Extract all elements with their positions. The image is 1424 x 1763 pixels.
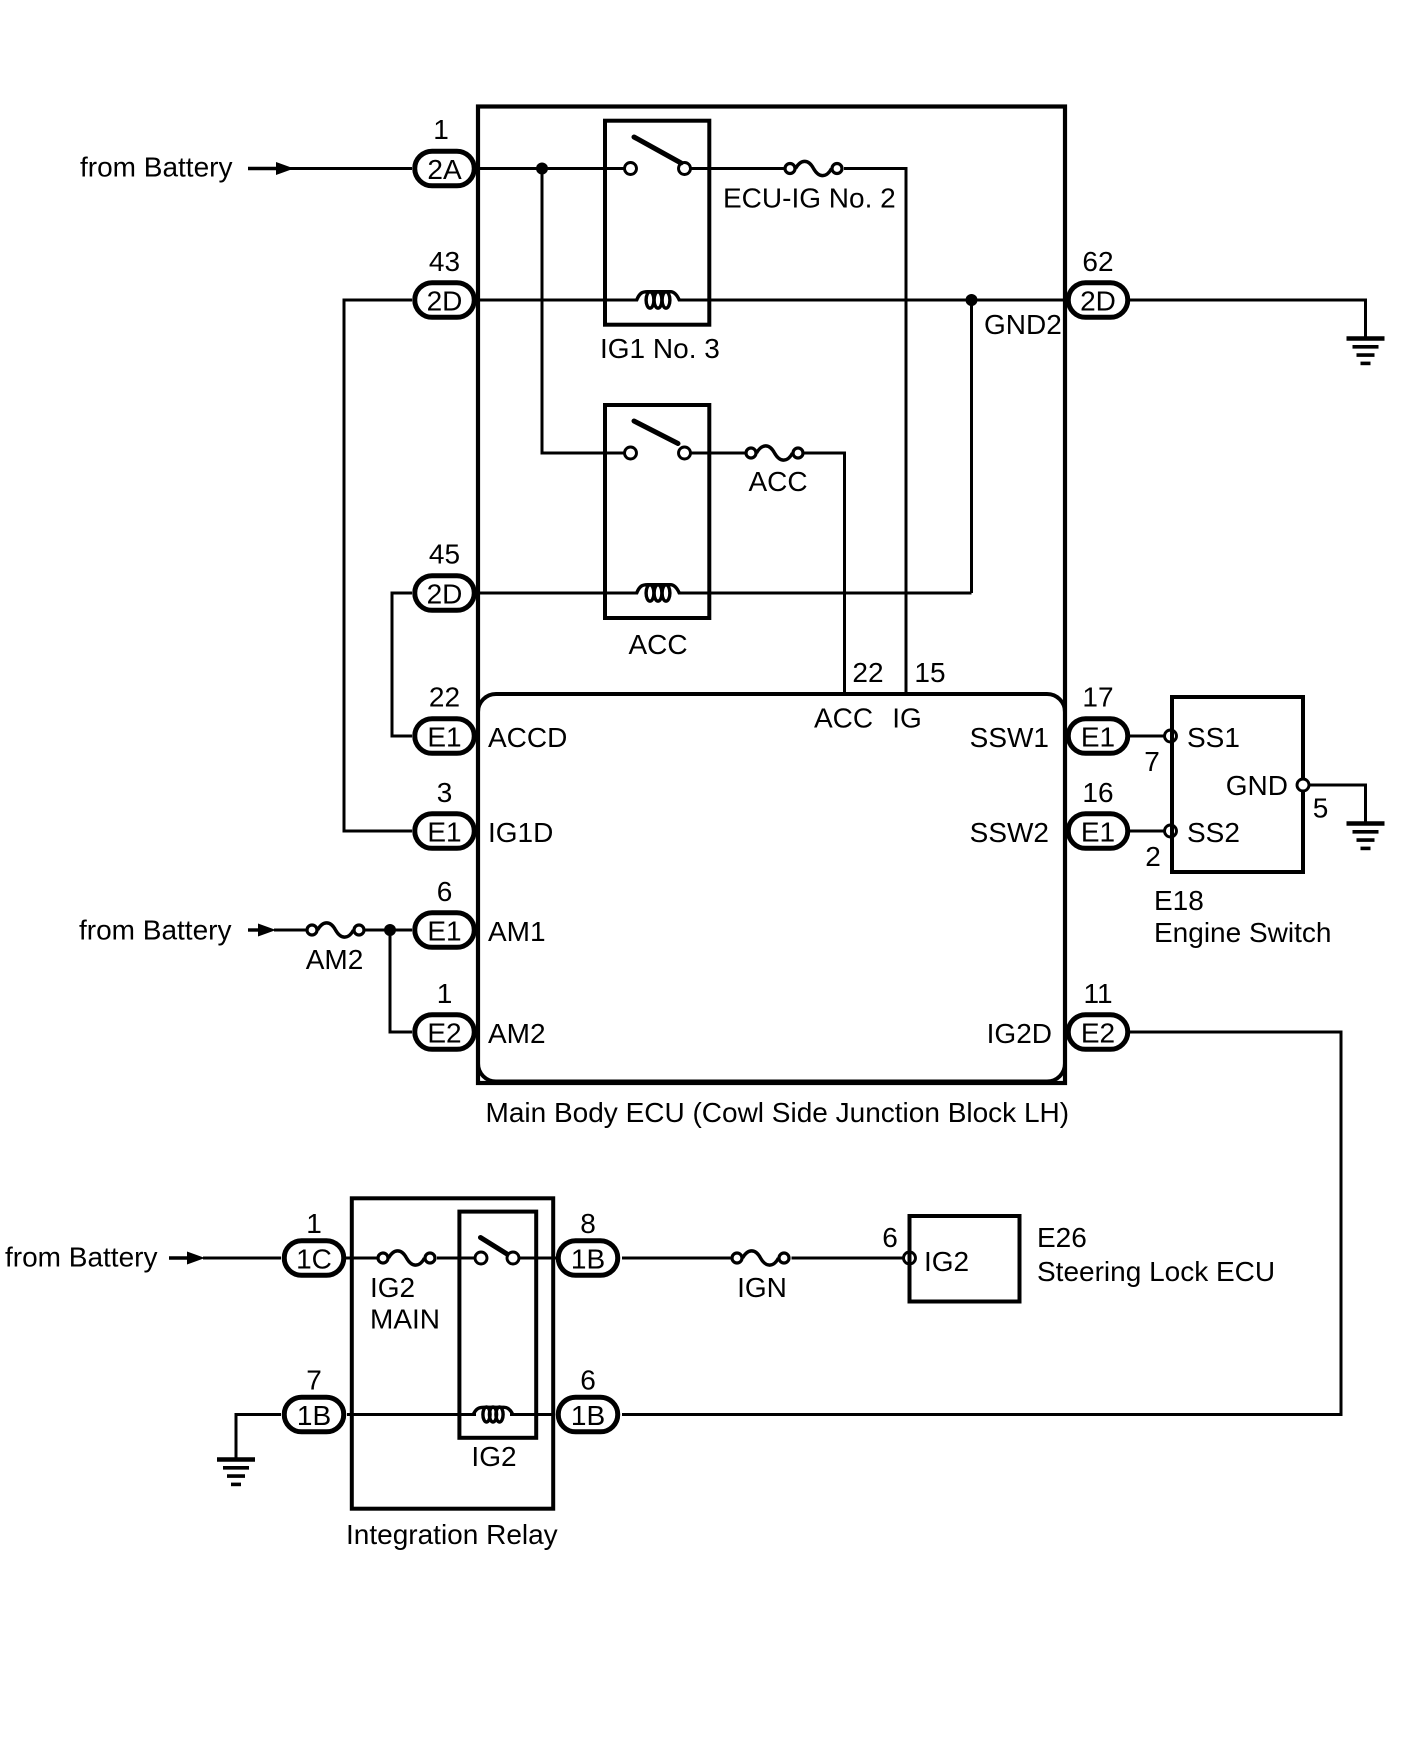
svg-text:1B: 1B	[297, 1400, 331, 1431]
relay IG1 No.3 switch contact left	[625, 163, 637, 175]
svg-text:Engine Switch: Engine Switch	[1154, 917, 1331, 948]
label ACCD	[488, 722, 567, 753]
svg-text:1C: 1C	[296, 1244, 332, 1275]
label IG2D	[987, 1018, 1052, 1049]
label ACC (ECU internal net)	[814, 703, 873, 734]
connector pin 2A	[415, 151, 475, 186]
wire fuse ECU-IG No.2 to pin 15 IG	[844, 169, 906, 697]
svg-text:E1: E1	[1081, 817, 1115, 848]
engine switch terminal SS2	[1165, 825, 1177, 837]
pin number 62 of connector 2D	[1082, 246, 1113, 277]
fuse IG2 MAIN	[378, 1251, 435, 1265]
svg-text:AM1: AM1	[488, 916, 546, 947]
label from Battery (integration relay feed)	[5, 1242, 157, 1273]
relay IG2 switch contact left	[475, 1252, 487, 1264]
svg-text:E1: E1	[427, 722, 461, 753]
wire relay IG2 coil to connector 1B-6	[510, 1413, 554, 1416]
wire fuse IGN to steering lock ECU IG2	[792, 1257, 904, 1260]
svg-text:1: 1	[433, 114, 449, 145]
wire engine switch GND to ground	[1310, 785, 1366, 824]
svg-text:11: 11	[1083, 978, 1112, 1009]
pin number 22 of connector E1	[429, 682, 460, 713]
pin number 22 (ECU top)	[852, 657, 883, 688]
connector pin 1B (8)	[558, 1241, 618, 1276]
wire relay ACC switch to fuse ACC	[691, 452, 745, 455]
junction node on 2A feed	[536, 163, 548, 175]
svg-text:16: 16	[1082, 777, 1113, 808]
label IG2 (relay)	[471, 1441, 516, 1472]
pin number 3 of connector E1	[437, 777, 453, 808]
pin number 8 of connector 1B	[580, 1208, 596, 1239]
svg-text:Integration Relay: Integration Relay	[346, 1519, 558, 1550]
wire relay IG1 No.3 coil to connector 2D-62	[678, 299, 1065, 302]
wire IG2D to integration relay 1B-6	[622, 1032, 1341, 1415]
connector pin 1C (1)	[284, 1241, 344, 1276]
wire junction to pin AM2	[390, 930, 412, 1032]
relay ACC box	[605, 405, 709, 618]
svg-text:ACCD: ACCD	[488, 722, 567, 753]
relay IG1 No.3 box	[605, 121, 709, 325]
junction node AM2 feed	[384, 924, 396, 936]
wire fuse IG2 MAIN to relay IG2 switch	[437, 1257, 474, 1260]
pin number 43 of connector 2D	[429, 246, 460, 277]
label IG1 No. 3	[600, 333, 720, 364]
label MAIN (fuse)	[370, 1304, 440, 1335]
pin number 1 of connector E2	[437, 978, 453, 1009]
svg-text:E26: E26	[1037, 1222, 1087, 1253]
svg-text:SSW1: SSW1	[970, 722, 1049, 753]
ground symbol integration relay	[217, 1460, 255, 1485]
svg-text:17: 17	[1082, 682, 1113, 713]
svg-text:E1: E1	[427, 817, 461, 848]
svg-text:22: 22	[429, 682, 460, 713]
relay IG1 No.3 switch contact right	[679, 163, 691, 175]
svg-text:2D: 2D	[427, 286, 463, 317]
svg-text:3: 3	[437, 777, 453, 808]
pin number 15 (ECU top)	[914, 657, 945, 688]
relay IG2 coil	[473, 1407, 513, 1422]
svg-text:from Battery: from Battery	[80, 152, 232, 183]
svg-text:2D: 2D	[427, 579, 463, 610]
relay ACC coil	[637, 585, 680, 602]
label SSW2	[970, 817, 1049, 848]
junction node GND2	[966, 294, 978, 306]
fuse ECU-IG No. 2	[785, 161, 842, 175]
wire 1B-8 to fuse IGN	[622, 1257, 731, 1260]
wire GND2 junction down to ACC coil net	[970, 300, 973, 593]
connector pin E1 (16) SSW2	[1068, 814, 1128, 849]
wire 1C to fuse IG2 MAIN	[346, 1257, 377, 1260]
wire relay IG1 No.3 switch to fuse ECU-IG No.2	[692, 167, 784, 170]
integration relay box	[352, 1198, 553, 1508]
pin number 2 (engine switch)	[1145, 841, 1161, 872]
label SS1	[1187, 722, 1240, 753]
wire fuse ACC to pin 22 ACC	[805, 453, 845, 696]
engine switch terminal GND	[1297, 779, 1309, 791]
label AM2 (pin)	[488, 1018, 546, 1049]
pin number 17 of connector E1	[1082, 682, 1113, 713]
label IG2 (steering lock ECU pin)	[924, 1246, 969, 1277]
svg-text:from Battery: from Battery	[5, 1242, 157, 1273]
svg-text:15: 15	[914, 657, 945, 688]
svg-text:from Battery: from Battery	[79, 915, 231, 946]
pin number 16 of connector E1	[1082, 777, 1113, 808]
arrowhead from Battery (AM2 feed)	[248, 924, 276, 937]
pin number 11 of connector E2	[1083, 978, 1112, 1009]
svg-text:6: 6	[882, 1222, 898, 1253]
wire arrow to connector 1C	[203, 1257, 281, 1260]
svg-text:IGN: IGN	[737, 1272, 787, 1303]
wire relay IG2 switch to connector 1B-8	[520, 1257, 556, 1260]
fuse AM2	[307, 923, 364, 937]
pin number 7 (engine switch)	[1144, 746, 1160, 777]
svg-text:Main Body ECU (Cowl Side Junct: Main Body ECU (Cowl Side Junction Block …	[486, 1097, 1070, 1128]
label AM2 (fuse)	[306, 944, 364, 975]
svg-text:E2: E2	[1081, 1018, 1115, 1049]
svg-text:IG2: IG2	[370, 1272, 415, 1303]
engine switch E18 box	[1172, 697, 1303, 872]
wire SSW1 to engine switch SS1	[1130, 735, 1166, 738]
wire relay ACC coil to GND2 junction	[678, 592, 972, 595]
svg-text:ACC: ACC	[628, 629, 687, 660]
arrowhead from Battery (integration relay feed)	[169, 1252, 205, 1265]
relay IG1 No.3 coil	[637, 292, 680, 308]
connector pin E1 (17) SSW1	[1068, 719, 1128, 754]
svg-text:22: 22	[852, 657, 883, 688]
wire 2D-45 to relay ACC coil	[477, 592, 638, 595]
svg-text:IG2: IG2	[471, 1441, 516, 1472]
svg-text:SSW2: SSW2	[970, 817, 1049, 848]
svg-text:6: 6	[437, 876, 453, 907]
svg-text:ACC: ACC	[748, 466, 807, 497]
label GND (engine switch)	[1226, 770, 1288, 801]
connector pin E1 (3) IG1D	[415, 814, 475, 849]
connector pin 1B (7)	[284, 1397, 344, 1432]
connector pin 2D (62)	[1068, 283, 1128, 318]
pin number 1 of connector 1C	[306, 1208, 322, 1239]
fuse IGN	[732, 1251, 789, 1265]
svg-text:E2: E2	[427, 1018, 461, 1049]
relay IG2 switch contact right	[507, 1252, 519, 1264]
label ACC (relay)	[628, 629, 687, 660]
connector pin E2 (11) IG2D	[1068, 1015, 1128, 1050]
label Engine Switch	[1154, 917, 1331, 948]
steering lock ECU terminal IG2	[904, 1252, 916, 1264]
svg-text:MAIN: MAIN	[370, 1304, 440, 1335]
svg-text:GND: GND	[1226, 770, 1288, 801]
label IG1D	[488, 817, 553, 848]
svg-text:8: 8	[580, 1208, 596, 1239]
relay IG1 No.3 switch blade	[634, 137, 681, 163]
wire junction to relay ACC switch	[542, 169, 624, 454]
svg-text:1B: 1B	[571, 1400, 605, 1431]
svg-text:IG2D: IG2D	[987, 1018, 1052, 1049]
wire arrow to fuse AM2	[274, 929, 306, 932]
svg-text:SS1: SS1	[1187, 722, 1240, 753]
svg-text:IG: IG	[892, 703, 922, 734]
connector pin E2 (1) AM2	[415, 1015, 475, 1050]
wire SSW2 to engine switch SS2	[1130, 830, 1166, 833]
label IGN	[737, 1272, 787, 1303]
svg-text:7: 7	[306, 1365, 322, 1396]
label from Battery (AM2 feed)	[79, 915, 231, 946]
wire 2D-62 to ground	[1130, 300, 1366, 339]
svg-text:GND2: GND2	[984, 309, 1062, 340]
svg-text:AM2: AM2	[306, 944, 364, 975]
svg-text:1: 1	[437, 978, 453, 1009]
svg-text:1B: 1B	[571, 1244, 605, 1275]
pin number 1 of connector 2A	[433, 114, 449, 145]
pin number 45 of connector 2D	[429, 539, 460, 570]
wire from Battery to connector 2A	[248, 167, 412, 170]
label IG2 (fuse)	[370, 1272, 415, 1303]
label ECU-IG No. 2	[723, 183, 896, 214]
svg-text:E1: E1	[427, 916, 461, 947]
connector pin E1 (6) AM1	[415, 913, 475, 948]
label AM1	[488, 916, 546, 947]
label from Battery (top feed)	[80, 152, 232, 183]
label Main Body ECU (Cowl Side Junction Block LH)	[486, 1097, 1070, 1128]
svg-text:43: 43	[429, 246, 460, 277]
pin number 7 of connector 1B	[306, 1365, 322, 1396]
steering lock ECU E26 box	[910, 1216, 1020, 1302]
connector pin 2D (43)	[415, 283, 475, 318]
pin number 6 of connector E1	[437, 876, 453, 907]
svg-text:SS2: SS2	[1187, 817, 1240, 848]
ground symbol top right	[1347, 339, 1385, 364]
svg-text:IG2: IG2	[924, 1246, 969, 1277]
Main Body ECU inner rounded box	[478, 694, 1065, 1082]
svg-text:ECU-IG No. 2: ECU-IG No. 2	[723, 183, 896, 214]
label IG (ECU internal net)	[892, 703, 922, 734]
label E18	[1154, 885, 1204, 916]
relay IG2 switch blade	[481, 1238, 508, 1255]
relay ACC switch blade	[634, 421, 678, 444]
pin number 6 (steering lock ECU)	[882, 1222, 898, 1253]
svg-text:IG1 No. 3: IG1 No. 3	[600, 333, 720, 364]
wire 2D-43 to IG1D pin E1-3	[344, 300, 412, 831]
engine switch terminal SS1	[1165, 730, 1177, 742]
svg-text:45: 45	[429, 539, 460, 570]
label Integration Relay	[346, 1519, 558, 1550]
relay ACC switch contact right	[679, 447, 691, 459]
svg-text:7: 7	[1144, 746, 1160, 777]
label SS2	[1187, 817, 1240, 848]
relay IG2 box	[459, 1212, 536, 1438]
svg-text:5: 5	[1313, 793, 1329, 824]
wire 2D-45 to ACCD pin E1-22	[392, 593, 412, 736]
label Steering Lock ECU	[1037, 1256, 1275, 1287]
fuse ACC	[746, 446, 803, 460]
label GND2	[984, 309, 1062, 340]
svg-text:Steering Lock ECU: Steering Lock ECU	[1037, 1256, 1275, 1287]
pin number 5 (engine switch)	[1313, 793, 1329, 824]
arrowhead from Battery (top feed)	[248, 162, 294, 175]
connector pin E1 (22) ACCD	[415, 719, 475, 754]
ground symbol engine switch	[1347, 824, 1385, 849]
wire 2D-43 to relay IG1 No.3 coil	[477, 299, 638, 302]
label SSW1	[970, 722, 1049, 753]
svg-text:6: 6	[580, 1365, 596, 1396]
wire fuse AM2 to pin AM1	[366, 929, 413, 932]
relay ACC switch contact left	[625, 447, 637, 459]
svg-text:2: 2	[1145, 841, 1161, 872]
Main Body ECU outer box	[478, 107, 1065, 1084]
svg-text:E18: E18	[1154, 885, 1204, 916]
svg-text:2A: 2A	[427, 154, 462, 185]
svg-text:AM2: AM2	[488, 1018, 546, 1049]
svg-text:62: 62	[1082, 246, 1113, 277]
wire ground to connector 1B-7	[236, 1415, 281, 1461]
wire 1B-7 to relay IG2 coil	[347, 1413, 476, 1416]
label ACC (fuse)	[748, 466, 807, 497]
wire 2A to relay IG1 No.3 switch	[477, 167, 624, 170]
svg-text:2D: 2D	[1080, 286, 1116, 317]
connector pin 1B (6)	[558, 1397, 618, 1432]
svg-text:IG1D: IG1D	[488, 817, 553, 848]
svg-text:1: 1	[306, 1208, 322, 1239]
connector pin 2D (45)	[415, 576, 475, 611]
svg-text:ACC: ACC	[814, 703, 873, 734]
pin number 6 of connector 1B	[580, 1365, 596, 1396]
label E26	[1037, 1222, 1087, 1253]
svg-text:E1: E1	[1081, 722, 1115, 753]
